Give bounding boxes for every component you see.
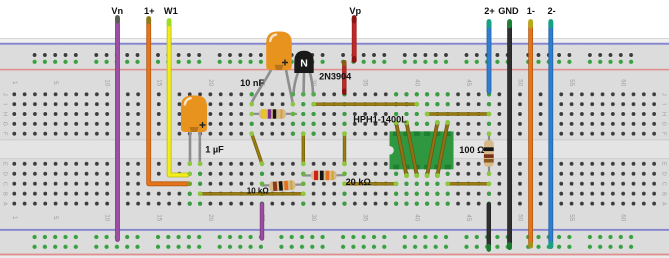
resistor R1 47k H24-H28 — [249, 109, 296, 118]
svg-text:2N3904: 2N3904 — [319, 71, 352, 81]
wire jumper A47 to bottom rail (black) — [487, 204, 491, 249]
svg-text:1: 1 — [11, 81, 18, 85]
top rail row1 holes (dark) — [28, 47, 638, 57]
wire 1+ (orange) L-shape to C18 — [149, 19, 192, 187]
svg-text:60: 60 — [620, 214, 627, 222]
svg-text:2+: 2+ — [484, 6, 494, 16]
svg-text:GND: GND — [498, 6, 519, 16]
svg-text:40: 40 — [413, 79, 420, 87]
svg-text:N: N — [300, 58, 308, 70]
top rail red line — [0, 69, 669, 71]
svg-text:1 µF: 1 µF — [205, 145, 224, 155]
svg-text:55: 55 — [568, 214, 575, 222]
wire Vp (red) from label into top rail row2 — [352, 18, 357, 61]
capacitor C2 10nF legs — [249, 67, 295, 106]
svg-text:45: 45 — [465, 79, 472, 87]
svg-text:1-: 1- — [527, 6, 535, 16]
svg-text:F: F — [2, 132, 8, 136]
svg-text:A: A — [2, 202, 8, 206]
node highlights: top-half connected columns — [250, 92, 492, 136]
svg-text:100 Ω: 100 Ω — [459, 145, 484, 155]
svg-text:H: H — [661, 112, 667, 116]
svg-text:J: J — [661, 93, 667, 96]
wire jumper I30-I40 — [311, 102, 419, 107]
svg-text:B: B — [661, 192, 667, 196]
svg-text:5: 5 — [52, 81, 59, 85]
svg-text:G: G — [2, 122, 8, 126]
wire jumper F24-E25 (diagonal) — [249, 131, 264, 166]
svg-text:10: 10 — [104, 79, 111, 87]
center channel — [0, 139, 669, 159]
wire Vn (purple) from top label to bottom rail — [115, 18, 120, 240]
main grid holes bottom half — [10, 159, 656, 209]
transistor Q1 2N3904 body — [294, 51, 313, 73]
svg-text:C: C — [661, 182, 667, 186]
svg-text:20: 20 — [207, 79, 214, 87]
svg-text:10: 10 — [104, 214, 111, 222]
svg-text:35: 35 — [362, 214, 369, 222]
svg-text:20: 20 — [207, 214, 214, 222]
svg-text:60: 60 — [620, 79, 627, 87]
svg-text:15: 15 — [155, 79, 162, 87]
wire jumper C43-C47 — [445, 181, 491, 186]
transistor Q1 2N3904 legs — [291, 71, 316, 97]
svg-text:HPH1-1400L: HPH1-1400L — [353, 115, 407, 125]
svg-text:1: 1 — [11, 216, 18, 220]
svg-text:55: 55 — [568, 79, 575, 87]
board row letters and column numbers — [2, 79, 667, 222]
svg-text:15: 15 — [155, 214, 162, 222]
svg-text:B: B — [2, 192, 8, 196]
svg-text:Vn: Vn — [111, 6, 123, 16]
wire jumper C33-C38 — [342, 181, 398, 186]
svg-text:W1: W1 — [164, 6, 178, 16]
wire jumper H41-H47 — [425, 112, 492, 117]
wire jumper F29-E29 — [301, 131, 306, 166]
svg-text:C: C — [2, 182, 8, 186]
capacitor C1 1uF body — [181, 96, 207, 133]
svg-text:H: H — [2, 112, 8, 116]
capacitor C2 10nF body — [266, 32, 292, 71]
svg-text:Vp: Vp — [349, 6, 361, 16]
svg-text:1+: 1+ — [144, 6, 154, 16]
svg-text:F: F — [661, 132, 667, 136]
svg-text:10 nF: 10 nF — [240, 78, 264, 88]
svg-text:20 kΩ: 20 kΩ — [346, 177, 371, 187]
svg-text:10 kΩ: 10 kΩ — [247, 187, 270, 196]
wire jumper B19-B29 — [198, 191, 306, 196]
svg-text:E: E — [2, 162, 8, 166]
wire jumper F33-E33 — [342, 131, 347, 166]
svg-text:D: D — [2, 172, 8, 176]
svg-text:35: 35 — [362, 79, 369, 87]
svg-text:30: 30 — [310, 214, 317, 222]
svg-text:G: G — [661, 122, 667, 126]
svg-text:E: E — [661, 162, 667, 166]
bottom rail row1 holes (green) — [28, 232, 638, 242]
wire jumper top rail row2 to J33 (red) — [342, 62, 346, 96]
svg-text:50: 50 — [517, 214, 524, 222]
svg-text:50: 50 — [517, 79, 524, 87]
wire 1- (orange) to bottom rail — [528, 22, 533, 247]
main grid holes top half — [10, 89, 656, 138]
resistor R4 100ohm F47-D47 — [484, 131, 494, 176]
node highlights: bottom-half connected columns — [188, 162, 492, 206]
wire 2+ (blue) to J47 — [487, 22, 492, 92]
svg-text:D: D — [661, 172, 667, 176]
capacitor C1 1uF legs — [187, 130, 202, 166]
wire 2- (blue) to bottom rail — [548, 22, 553, 247]
svg-text:45: 45 — [465, 214, 472, 222]
svg-text:40: 40 — [413, 214, 420, 222]
wire W1 (yellow) L-shape to D18 — [169, 21, 192, 177]
wire GND (black) to bottom rail — [507, 22, 512, 248]
svg-text:A: A — [661, 202, 667, 206]
resistor R2 10k C25-C29 — [260, 180, 306, 191]
svg-text:J: J — [2, 93, 8, 96]
bottom rail blue line — [0, 229, 669, 231]
bottom rail red line — [0, 255, 669, 258]
top rail row2 holes (green) — [28, 57, 638, 67]
wire jumper A25 to bottom rail (purple) — [260, 204, 264, 238]
transformer T1 legs — [394, 120, 451, 178]
svg-text:2-: 2- — [548, 6, 556, 16]
transformer T1 HPH1-1400L body — [390, 131, 454, 169]
bottom rail row2 holes (green) — [28, 242, 638, 252]
svg-text:5: 5 — [52, 216, 59, 220]
top rail blue line — [0, 43, 669, 45]
resistor R3 20k D29-D33 — [301, 171, 347, 180]
